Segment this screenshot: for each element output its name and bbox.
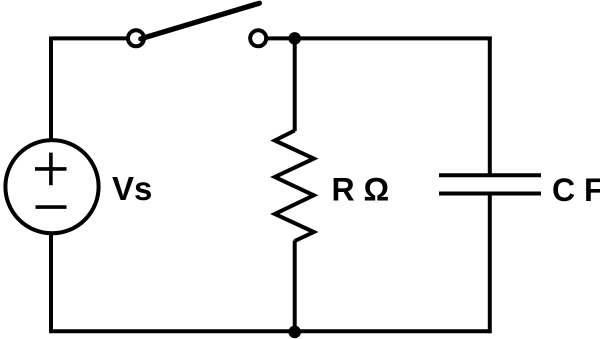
switch SW1 arm xyxy=(141,3,260,39)
junction dot top node A xyxy=(288,32,301,45)
junction dot bottom node B xyxy=(288,326,301,339)
svg-text:Vs: Vs xyxy=(112,170,152,207)
wire top horizontal junction to right xyxy=(295,36,492,40)
wire top-left horizontal xyxy=(51,36,127,40)
switch right terminal circle xyxy=(250,30,266,46)
capacitor C bottom plate xyxy=(439,192,541,196)
svg-text:C F: C F xyxy=(552,172,600,208)
svg-text:R Ω: R Ω xyxy=(332,171,390,207)
switch left terminal circle xyxy=(128,30,144,46)
switch arm pivot nub xyxy=(141,36,143,42)
voltage source plus sign xyxy=(35,153,67,186)
resistor R zigzag xyxy=(275,131,314,242)
voltage source V1 circle xyxy=(5,140,98,233)
capacitor C top plate xyxy=(439,173,541,177)
wire bottom horizontal xyxy=(49,329,490,333)
wire left vertical upper xyxy=(49,37,53,141)
wire right vertical upper xyxy=(488,37,492,176)
voltage source minus sign xyxy=(36,205,67,209)
wire switch to junction xyxy=(268,36,295,40)
wire middle vertical lower xyxy=(293,241,297,332)
wire left vertical lower xyxy=(49,233,53,331)
wire middle vertical upper xyxy=(293,38,297,131)
wire right vertical lower xyxy=(488,194,492,334)
